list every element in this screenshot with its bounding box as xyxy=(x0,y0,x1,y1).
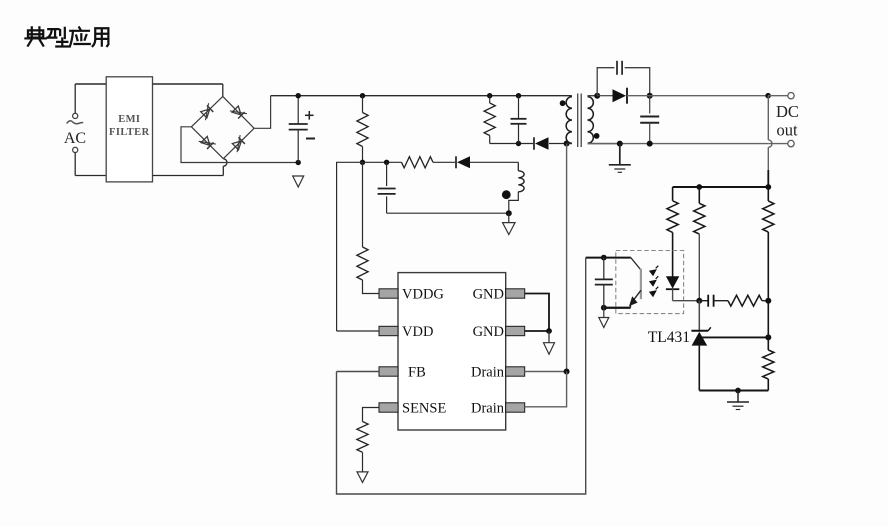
svg-text:GND: GND xyxy=(473,287,504,303)
svg-text:SENSE: SENSE xyxy=(402,401,446,417)
svg-text:VDD: VDD xyxy=(402,324,433,340)
svg-text:TL431: TL431 xyxy=(648,329,690,346)
svg-text:FILTER: FILTER xyxy=(109,127,150,138)
svg-text:GND: GND xyxy=(473,324,504,340)
svg-text:FB: FB xyxy=(408,365,426,381)
svg-text:out: out xyxy=(777,120,799,139)
svg-text:EMI: EMI xyxy=(118,114,140,125)
svg-text:VDDG: VDDG xyxy=(402,287,444,303)
svg-text:AC: AC xyxy=(64,130,86,147)
svg-text:Drain: Drain xyxy=(471,365,505,381)
svg-text:Drain: Drain xyxy=(471,401,505,417)
svg-text:DC: DC xyxy=(776,102,799,121)
